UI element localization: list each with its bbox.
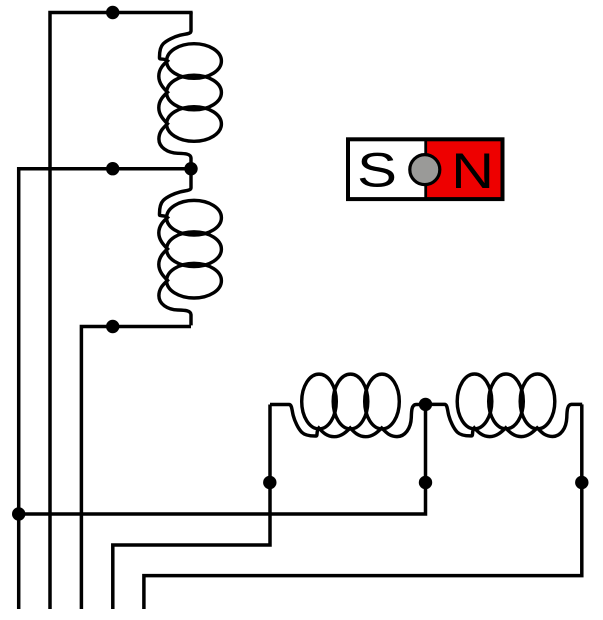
magnet north half (red) [425,139,502,199]
node dot junction coils L1-L2 [184,162,197,175]
node dot on middle vertical [419,476,432,489]
stator coil L3 (left horizontal coil) [270,374,427,437]
node dot on L3 left vertical [263,476,276,489]
node dot on L4 right vertical [575,476,588,489]
node dot on second level wire [106,162,119,175]
wire: top horizontal + left vertical (phase A) [50,13,193,610]
wire: stator coil L4 right terminal down, long horizontal left, down [144,404,582,609]
node dot on top wire [106,6,119,19]
wire: second level horizontal + far-left vertical (phase B) [19,169,191,609]
wire: stator middle junction down then long horizontal to far left [19,404,426,514]
node dot on third level wire [106,320,119,333]
node dot junction coils L3-L4 [419,398,432,411]
magnet pole divider [424,139,427,199]
rotor coil L2 (second vertical coil) [159,169,222,326]
stator coil L4 (right horizontal coil) [426,374,583,437]
wire: third level horizontal + vertical (phase C) [81,327,191,610]
svg-text:S: S [357,143,397,197]
magnet pivot circle [410,155,440,185]
node dot junction far-left vertical with long horizontal [12,507,25,520]
svg-text:N: N [451,142,494,198]
magnet body outline [348,139,503,199]
rotor coil L1 (top vertical coil) [159,12,222,169]
wire: stator coil L3 left terminal down, left and down [113,405,270,610]
